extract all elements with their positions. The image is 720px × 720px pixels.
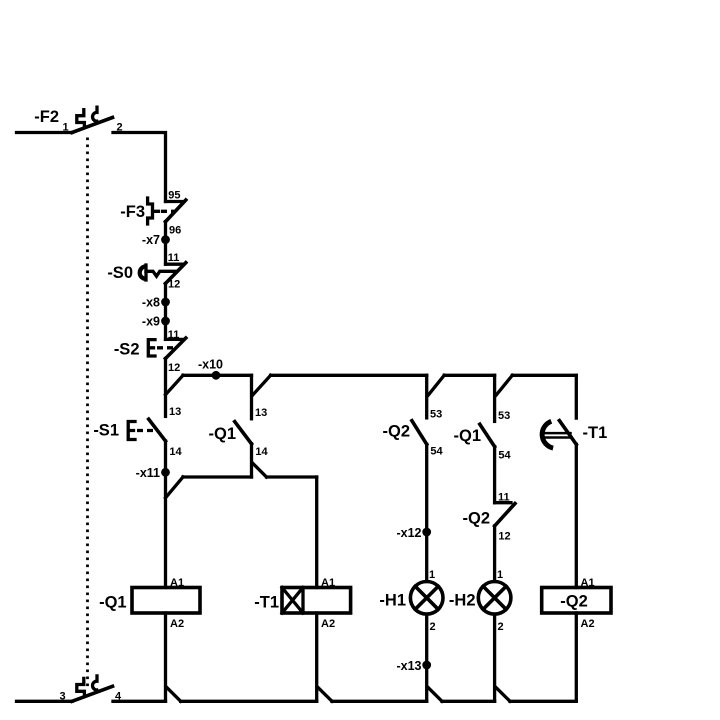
node -x12 [422, 528, 431, 537]
overload contact -F3 blade [166, 200, 186, 222]
svg-text:-Q2: -Q2 [560, 593, 588, 611]
mechanical linkage dotted line [86, 138, 89, 687]
timed contact -T1 blade [559, 421, 576, 445]
wire coil -T1 to bottom bus [315, 613, 318, 701]
wire below -Q1 contact [250, 444, 253, 477]
breaker -F2 bottom: thermal release glyph [77, 678, 85, 695]
-F3 actuator dashed link [161, 210, 174, 213]
wire down to timer coil [315, 477, 318, 588]
svg-text:14: 14 [169, 446, 182, 458]
svg-text:-T1: -T1 [583, 424, 608, 442]
node -x7 [161, 235, 170, 244]
svg-text:-x13: -x13 [396, 659, 421, 673]
svg-text:12: 12 [168, 362, 180, 374]
wire branch 3 [425, 444, 428, 581]
svg-text:-Q1: -Q1 [453, 427, 481, 445]
svg-text:-x12: -x12 [396, 526, 421, 540]
svg-text:13: 13 [255, 407, 267, 419]
aux contact -Q1 blade [480, 424, 495, 446]
junction flag diagonal bottom [318, 688, 332, 702]
lamp -H2 cross [483, 586, 506, 609]
svg-text:11: 11 [498, 492, 510, 504]
e-stop -S0 blade [166, 263, 186, 284]
aux contact -Q1 blade [235, 422, 252, 444]
svg-text:53: 53 [430, 409, 442, 421]
svg-text:-Q1: -Q1 [99, 594, 127, 612]
-S1 actuator E bracket [128, 422, 135, 440]
breaker -F2 top: wire terminal 2 [113, 133, 166, 202]
e-stop -S0 seat [166, 263, 183, 266]
nc contact -Q2 11/12 seat [495, 501, 511, 504]
svg-text:-F2: -F2 [34, 108, 59, 126]
wire [493, 526, 496, 582]
junction flag diagonal mid bus resume [253, 464, 267, 478]
svg-text:-Q2: -Q2 [462, 509, 490, 527]
breaker -F2 top: magnetic release glyph [93, 106, 99, 122]
node -x13 [422, 661, 431, 670]
svg-text:A2: A2 [170, 618, 184, 630]
wire coil -Q1 to bottom bus [164, 613, 167, 701]
wire [164, 222, 167, 265]
timer coil -T1 X compartment [282, 588, 303, 614]
lamp -H1 cross [415, 586, 438, 609]
-S0 latch link [146, 271, 176, 276]
svg-text:A1: A1 [170, 577, 184, 589]
breaker -F2 bottom: contact blade [72, 686, 113, 701]
svg-text:-x10: -x10 [198, 358, 223, 372]
svg-text:53: 53 [498, 410, 510, 422]
timed contact -T1 delay arc [542, 421, 553, 448]
wire below -H2 [493, 614, 496, 701]
svg-text:-Q1: -Q1 [208, 425, 236, 443]
junction flag diagonal bottom [496, 688, 510, 702]
aux contact -Q2 blade [412, 421, 427, 445]
breaker -F2 top: wire terminal 1 [17, 131, 73, 134]
lamp -H1 circle [410, 582, 443, 615]
svg-text:14: 14 [255, 446, 268, 458]
svg-text:2: 2 [498, 621, 504, 633]
svg-text:1: 1 [63, 122, 69, 134]
svg-text:A1: A1 [581, 577, 595, 589]
svg-text:-x11: -x11 [136, 466, 160, 480]
svg-text:-F3: -F3 [120, 203, 145, 221]
contactor coil -Q2 box [542, 588, 611, 614]
wire [493, 447, 496, 503]
svg-text:13: 13 [169, 406, 181, 418]
svg-text:-S2: -S2 [114, 340, 140, 358]
svg-text:96: 96 [169, 224, 181, 236]
timed contact -T1 top wire [575, 375, 578, 418]
timed contact -T1 delay lines [543, 433, 571, 437]
svg-text:11: 11 [168, 329, 180, 341]
svg-text:11: 11 [168, 252, 180, 264]
wire bottom bus segment 4 [442, 700, 495, 703]
wire bottom bus segment 2 [181, 700, 317, 703]
wire main rail [164, 359, 167, 417]
-S0 mushroom stem bar [144, 265, 147, 280]
wire bottom bus segment 3 [332, 700, 427, 703]
svg-text:1: 1 [497, 569, 503, 581]
wire top bus segment 1 [183, 374, 252, 377]
-S2 actuator dashed link [157, 346, 177, 349]
svg-text:-x7: -x7 [142, 233, 160, 247]
svg-text:12: 12 [168, 279, 180, 291]
svg-text:-H2: -H2 [449, 592, 476, 610]
svg-text:54: 54 [430, 446, 443, 458]
wire mid bus segment 2 [267, 475, 317, 478]
contactor coil -Q1 box [132, 588, 200, 614]
svg-text:-Q2: -Q2 [382, 422, 410, 440]
lamp -H2 circle [478, 582, 511, 615]
junction flag diagonal top bus resume [496, 375, 512, 395]
node -x10 [212, 371, 221, 380]
aux contact -Q1 53/54 top wire [493, 375, 496, 421]
svg-text:-x9: -x9 [142, 314, 160, 328]
breaker -F2 top: contact blade [72, 118, 113, 133]
wire mid bus segment 1 [183, 475, 252, 478]
junction flag diagonal to top bus [166, 375, 184, 394]
-S0 mushroom head [140, 266, 146, 279]
pushbutton -S2 seat [166, 338, 183, 341]
svg-text:A2: A2 [581, 618, 595, 630]
svg-text:-S1: -S1 [93, 422, 119, 440]
wire [164, 284, 167, 340]
svg-text:-S0: -S0 [107, 264, 133, 282]
aux contact -Q1 13/14 top wire [250, 375, 253, 419]
svg-text:2: 2 [117, 122, 123, 134]
breaker -F2 bottom: magnetic release glyph [93, 674, 99, 690]
pushbutton -S2 blade [166, 338, 186, 359]
wire top bus segment 3 [444, 374, 494, 377]
svg-text:A2: A2 [321, 618, 335, 630]
svg-text:1: 1 [429, 569, 435, 581]
node -x8 [161, 298, 170, 307]
junction flag diagonal top bus resume [253, 375, 271, 394]
svg-text:2: 2 [430, 621, 436, 633]
wire main rail below -S1 [164, 441, 167, 588]
-F3 actuator bracket [148, 198, 159, 224]
junction flag diagonal top bus resume [428, 375, 444, 395]
-S2 actuator E bracket [148, 340, 155, 356]
-S1 actuator dashed link [137, 429, 156, 432]
nc contact -Q2 blade [495, 504, 515, 527]
wire bottom bus segment 5 [510, 700, 576, 703]
node -x9 [161, 317, 170, 326]
svg-text:-H1: -H1 [379, 592, 406, 610]
breaker -F2 bottom: wire terminal 3 [17, 700, 73, 703]
pushbutton -S1 blade [149, 419, 166, 441]
svg-text:-T1: -T1 [254, 594, 279, 612]
svg-text:-x8: -x8 [142, 295, 160, 309]
junction flag diagonal bottom [428, 688, 442, 702]
svg-text:95: 95 [168, 189, 180, 201]
aux contact -Q2 53/54 top wire [425, 375, 428, 418]
svg-text:12: 12 [498, 531, 510, 543]
node -x11 [161, 468, 170, 477]
overload contact -F3 seat [166, 200, 183, 203]
svg-text:3: 3 [60, 691, 66, 703]
wire below -H1 [425, 614, 428, 701]
wire top bus segment 4 [512, 374, 576, 377]
svg-text:A1: A1 [321, 577, 335, 589]
breaker -F2 top: thermal release glyph [77, 110, 85, 127]
wire to -Q2 coil [575, 444, 578, 587]
wire coil -Q2 to bottom bus [575, 613, 578, 701]
svg-text:54: 54 [498, 450, 511, 462]
wire bottom bus segment 1 [113, 700, 166, 703]
junction flag diagonal to mid bus [166, 477, 184, 498]
wire top bus segment 2 [271, 374, 427, 377]
junction flag diagonal bottom [167, 688, 181, 702]
timer coil -T1 box [282, 588, 351, 614]
